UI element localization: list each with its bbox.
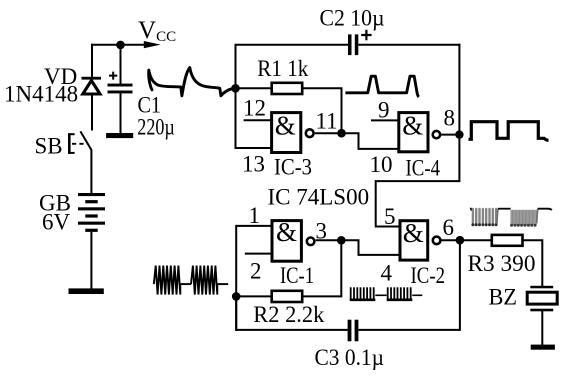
svg-text:6: 6 bbox=[443, 215, 455, 240]
svg-text:R3 390: R3 390 bbox=[468, 251, 536, 276]
waveform: tone burst at IC-1 input bbox=[154, 266, 228, 295]
svg-text:4: 4 bbox=[381, 261, 393, 286]
wire: C2 to right rail bbox=[358, 44, 460, 46]
wire: C1 top lead bbox=[120, 45, 122, 84]
svg-text:10: 10 bbox=[370, 152, 393, 177]
waveform: burst at IC-2 / C3 (comb) bbox=[350, 287, 423, 300]
wire: node 8 feedback to IC-2 pin 5 bbox=[376, 135, 460, 227]
wire: buzzer to ground bbox=[541, 311, 543, 345]
nand gate IC-1 bbox=[272, 217, 314, 261]
svg-text:IC-4: IC-4 bbox=[406, 156, 441, 181]
resistor R2 bbox=[272, 291, 303, 302]
svg-text:IC 74LS00: IC 74LS00 bbox=[268, 185, 370, 210]
svg-text:220µ: 220µ bbox=[137, 115, 175, 140]
svg-text:8: 8 bbox=[444, 106, 456, 131]
resistor R1 bbox=[272, 83, 303, 94]
waveform: sawtooth at node A bbox=[149, 68, 236, 96]
diode VD 1N4148 bbox=[82, 77, 102, 94]
svg-text:2: 2 bbox=[250, 259, 262, 284]
wire: IC-3 pin 13 bbox=[236, 147, 271, 148]
waveform: gated tone bursts at output (gray) bbox=[470, 208, 552, 227]
wire: R3 to buzzer BZ bbox=[523, 240, 543, 286]
nand gate IC-4 bbox=[399, 110, 440, 151]
svg-text:&: & bbox=[403, 218, 424, 248]
svg-text:&: & bbox=[402, 110, 423, 140]
wire: IC-3 pin 12 stub bbox=[244, 119, 271, 121]
ground: buzzer bbox=[531, 345, 555, 350]
nand gate IC-2 bbox=[400, 218, 440, 260]
svg-text:IC-3: IC-3 bbox=[274, 155, 312, 180]
wire: left vertical of IC-1 feedback loop bbox=[235, 225, 237, 331]
resistor R3 bbox=[492, 235, 523, 246]
svg-text:1N4148: 1N4148 bbox=[4, 82, 78, 107]
svg-text:1: 1 bbox=[249, 203, 261, 228]
wire: C1 bottom lead bbox=[120, 93, 122, 133]
capacitor C3 (0.1µ) bbox=[348, 320, 359, 342]
nand gate IC-3 bbox=[272, 110, 314, 152]
waveform: narrow pulses at IC-4 bbox=[345, 76, 418, 97]
wire: top rail to C2 bbox=[235, 44, 349, 46]
svg-text:IC-1: IC-1 bbox=[280, 263, 314, 288]
node 11 bbox=[337, 129, 346, 138]
wire: battery to ground bbox=[90, 232, 92, 289]
switch SB actuator bracket bbox=[68, 133, 87, 154]
wire: R2 to node 3 riser bbox=[303, 295, 342, 297]
wire: left vertical of IC-3 feedback loop bbox=[235, 45, 237, 148]
node: Vcc / C1 junction bbox=[116, 41, 125, 50]
waveform: square wave at IC-4 output bbox=[469, 122, 549, 141]
svg-text:9: 9 bbox=[378, 98, 390, 123]
svg-text:6V: 6V bbox=[42, 210, 71, 235]
wire: IC-4 output to node 8 bbox=[441, 134, 459, 136]
wire: node A2 down to C3 bbox=[236, 296, 348, 330]
wire: IC-1 pin 2 stub bbox=[245, 253, 272, 255]
wire: IC-1 output to node 3 bbox=[316, 239, 342, 241]
ground: battery bbox=[69, 288, 104, 294]
switch SB (push-button, lever) bbox=[80, 131, 91, 149]
svg-text:3: 3 bbox=[316, 219, 328, 244]
wire: IC-1 pin 1 bbox=[236, 225, 272, 227]
svg-text:BZ: BZ bbox=[489, 285, 518, 310]
svg-text:11: 11 bbox=[316, 109, 338, 134]
svg-text:5: 5 bbox=[384, 204, 396, 229]
svg-text:C3 0.1µ: C3 0.1µ bbox=[315, 345, 385, 370]
wire: IC-2 output to node 6 bbox=[442, 239, 460, 241]
wire: node 3 down to R2 bbox=[340, 240, 342, 296]
node 6 bbox=[456, 236, 465, 245]
wire: diode to switch bbox=[91, 95, 93, 131]
node A: R1 / IC-3 input junction bbox=[231, 84, 240, 93]
node 8 bbox=[455, 130, 463, 138]
svg-text:12: 12 bbox=[243, 96, 266, 121]
svg-text:13: 13 bbox=[242, 152, 265, 177]
wire: node A2 to R2 bbox=[236, 295, 271, 297]
svg-text:IC-2: IC-2 bbox=[411, 263, 446, 288]
Vcc supply arrow bbox=[144, 41, 161, 48]
svg-text:R2 2.2k: R2 2.2k bbox=[253, 302, 324, 327]
wire: node 3 to IC-2 pin 4 bbox=[341, 240, 400, 255]
wire: top-left rail to Vcc arrow bbox=[91, 44, 146, 46]
buzzer BZ (piezo sounder) bbox=[527, 286, 557, 312]
wire: switch to battery bbox=[90, 149, 92, 193]
battery GB (three cells) bbox=[78, 193, 105, 232]
capacitor C2 (10µ) bbox=[348, 30, 372, 55]
wire: diode branch upper bbox=[91, 44, 93, 78]
node A2: IC-1 input / R2 junction bbox=[232, 292, 241, 301]
svg-text:R1 1k: R1 1k bbox=[257, 56, 308, 81]
wire: IC-3 output to node 11 bbox=[315, 132, 342, 134]
wire: right rail down to node 8 bbox=[458, 44, 460, 135]
wire: node 11 to IC-4 pin 10 bbox=[342, 133, 398, 149]
svg-text:C2 10µ: C2 10µ bbox=[320, 6, 385, 31]
capacitor C1 (electrolytic 220µ) bbox=[108, 72, 133, 94]
ground: C1 bbox=[106, 133, 133, 138]
node 3 bbox=[337, 236, 346, 245]
svg-text:&: & bbox=[276, 217, 297, 247]
wire: node A to R1 bbox=[236, 87, 272, 89]
wire: IC-4 pin 9 stub bbox=[371, 119, 398, 121]
wire: C3 to node 6 riser bbox=[358, 239, 460, 330]
svg-text:SB: SB bbox=[35, 134, 63, 159]
wire: R1 to node 11 bbox=[303, 88, 342, 133]
wire: node 6 to R3 bbox=[460, 239, 492, 241]
svg-text:&: & bbox=[275, 110, 296, 140]
